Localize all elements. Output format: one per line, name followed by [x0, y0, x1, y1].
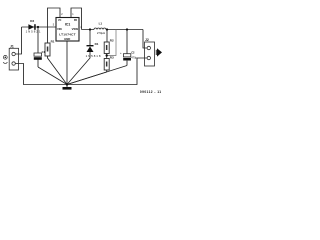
svg-text:D1: D1: [95, 42, 99, 46]
svg-text:GND: GND: [64, 37, 70, 41]
wire C1 to ground diagonal: [38, 67, 67, 85]
dc plug symbol: [3, 55, 7, 63]
regulator IC1 LT1074CT: [56, 18, 79, 42]
capacitor C2: [123, 54, 131, 61]
svg-text:VIN: VIN: [57, 27, 62, 31]
wire R3 bottom to ground: [67, 70, 107, 85]
wire R2 top: [106, 30, 108, 43]
diode D2: [28, 24, 35, 30]
wire R1 bottom to ground: [48, 56, 68, 85]
svg-text:VC: VC: [58, 19, 62, 22]
wire divider middle: [106, 54, 108, 59]
wire C2 to ground diagonal: [67, 66, 127, 85]
resistor R3: [104, 59, 109, 71]
svg-text:R2: R2: [110, 39, 114, 43]
svg-text:R1: R1: [51, 40, 55, 44]
wire ground stub: [66, 85, 68, 88]
svg-text:+: +: [120, 51, 122, 55]
wire C2 branch: [126, 30, 128, 66]
wire D1 top: [89, 30, 91, 46]
resistor R1: [45, 43, 50, 56]
svg-text:D2: D2: [30, 19, 34, 23]
node switch-diode junction: [89, 28, 91, 30]
svg-text:5: 5: [53, 24, 55, 27]
wire J1 return: [19, 64, 68, 85]
svg-text:2: 2: [61, 13, 63, 16]
svg-text:470µ: 470µ: [131, 55, 137, 59]
node FB divider junction: [106, 54, 108, 56]
wire IC GND pin down: [66, 41, 68, 85]
resistor R2: [104, 42, 109, 54]
svg-text:J1: J1: [10, 44, 14, 48]
wire J2 return: [67, 58, 145, 85]
wire D1 bottom to ground: [67, 52, 90, 85]
svg-text:J2: J2: [145, 38, 149, 42]
wire output to J2: [143, 30, 145, 49]
wire FB sense: [108, 30, 117, 56]
wire input top rail: [22, 26, 57, 28]
wire C1 branch down: [37, 27, 39, 67]
svg-text:L1: L1: [99, 22, 103, 26]
connector J2: [145, 42, 155, 66]
node input cap junction: [37, 26, 39, 28]
node L1 R2 junction: [106, 28, 108, 30]
wire output rail: [82, 29, 144, 31]
ground: [66, 83, 68, 85]
svg-text:R3: R3: [110, 56, 114, 60]
diode D1: [87, 45, 94, 52]
svg-text:FB: FB: [74, 19, 77, 22]
node C2 junction: [126, 28, 128, 30]
svg-text:1: 1: [72, 13, 74, 16]
svg-text:VSW: VSW: [72, 27, 79, 31]
svg-text:090112 - 11: 090112 - 11: [140, 90, 162, 94]
svg-text:1N5821: 1N5821: [26, 30, 42, 34]
output arrow: [157, 48, 162, 56]
svg-text:270µH: 270µH: [97, 31, 105, 35]
wire J1 plus riser: [19, 27, 22, 54]
svg-text:IC1: IC1: [65, 22, 71, 26]
connector J1: [9, 48, 18, 70]
inductor L1: [94, 28, 106, 29]
svg-text:1N5818: 1N5818: [86, 54, 102, 58]
wire FB loop: [71, 8, 82, 30]
capacitor C1: [34, 53, 42, 60]
svg-text:C2: C2: [131, 51, 135, 55]
wire VC loop: [48, 8, 61, 43]
